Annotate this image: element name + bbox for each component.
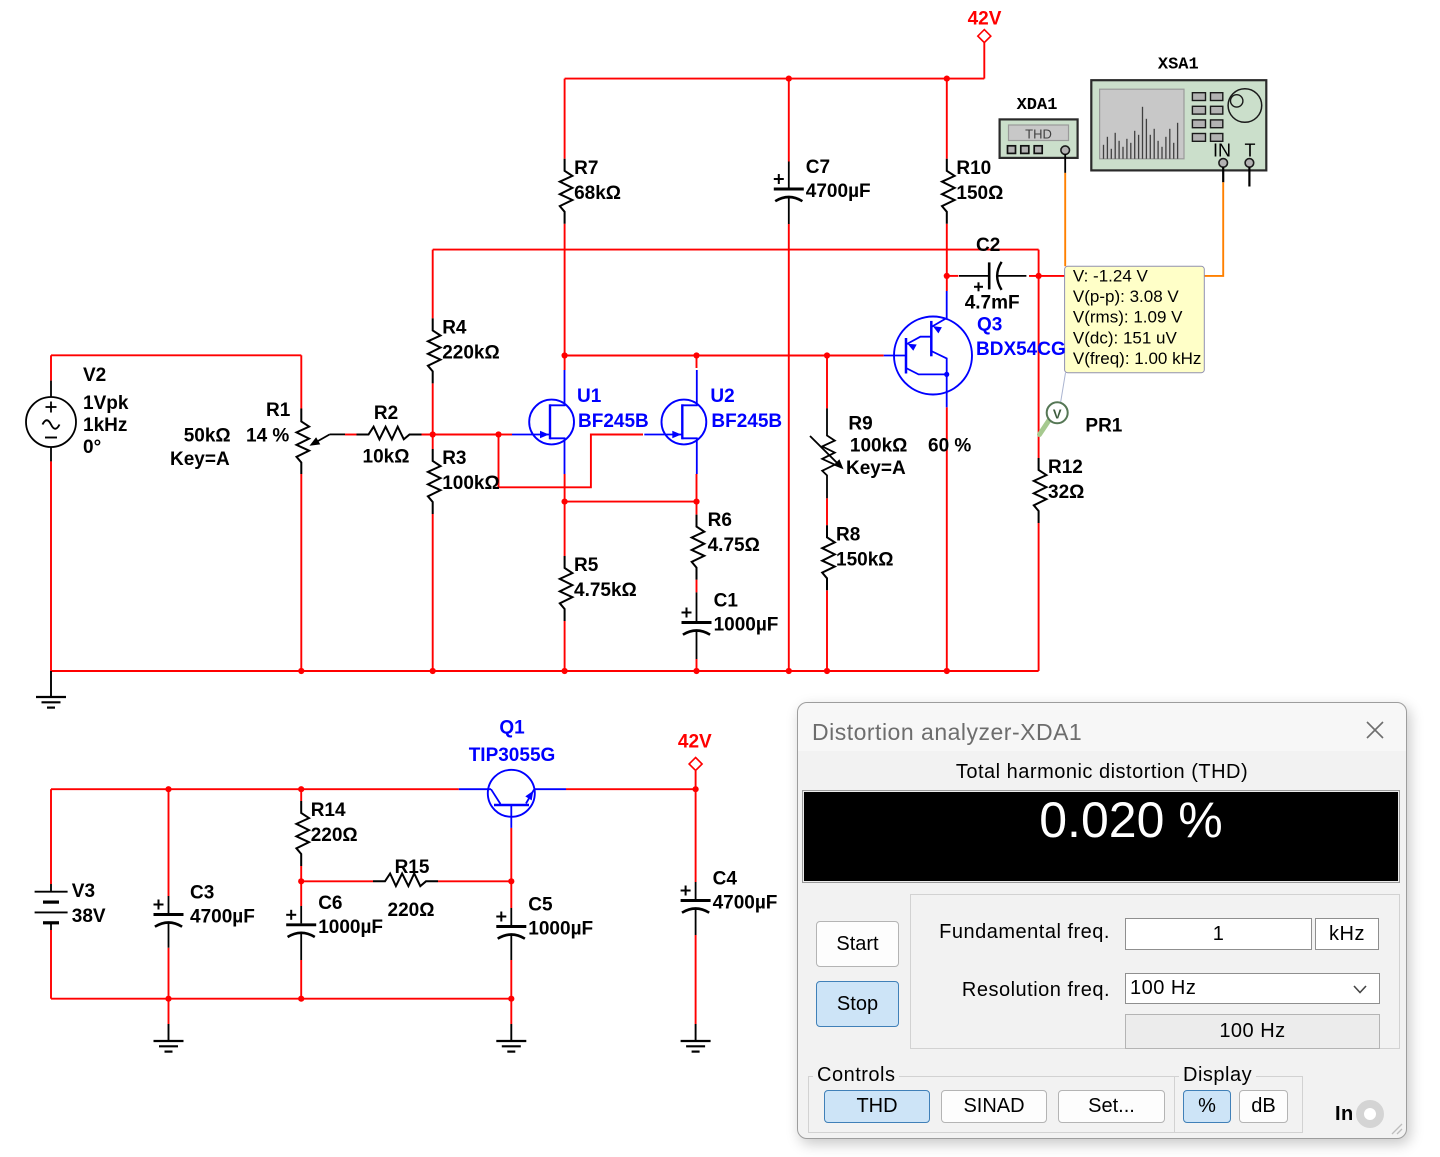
svg-text:10kΩ: 10kΩ	[363, 447, 410, 468]
svg-text:V3: V3	[72, 881, 95, 902]
svg-text:C5: C5	[528, 895, 553, 916]
svg-text:1000µF: 1000µF	[528, 919, 593, 940]
svg-text:XSA1: XSA1	[1158, 56, 1199, 75]
svg-text:R5: R5	[574, 555, 599, 576]
svg-text:R2: R2	[374, 403, 398, 424]
svg-text:1000µF: 1000µF	[318, 917, 383, 938]
svg-text:R12: R12	[1048, 457, 1083, 478]
svg-text:R4: R4	[442, 317, 467, 338]
svg-text:1kHz: 1kHz	[83, 415, 127, 436]
svg-text:C4: C4	[713, 869, 738, 890]
svg-text:32Ω: 32Ω	[1048, 482, 1084, 503]
svg-text:60 %: 60 %	[928, 436, 971, 457]
svg-text:BF245B: BF245B	[578, 411, 649, 432]
svg-text:V(dc): 151 uV: V(dc): 151 uV	[1073, 328, 1178, 347]
svg-text:42V: 42V	[678, 732, 712, 753]
svg-text:R15: R15	[395, 857, 430, 878]
svg-text:PR1: PR1	[1085, 416, 1122, 437]
svg-text:U2: U2	[710, 386, 734, 407]
svg-text:100kΩ: 100kΩ	[442, 473, 500, 494]
svg-text:R1: R1	[266, 400, 291, 421]
svg-text:4700µF: 4700µF	[806, 181, 871, 202]
svg-text:150Ω: 150Ω	[956, 183, 1003, 204]
svg-text:220kΩ: 220kΩ	[442, 342, 500, 363]
svg-text:R8: R8	[836, 524, 860, 545]
svg-text:U1: U1	[577, 386, 602, 407]
svg-text:V(p-p): 3.08 V: V(p-p): 3.08 V	[1073, 287, 1179, 306]
svg-text:T: T	[1245, 141, 1256, 161]
svg-text:BF245B: BF245B	[711, 411, 782, 432]
svg-text:C6: C6	[318, 893, 342, 914]
svg-text:THD: THD	[1025, 127, 1052, 142]
svg-text:4.75Ω: 4.75Ω	[708, 535, 760, 556]
svg-text:4.75kΩ: 4.75kΩ	[574, 580, 637, 601]
svg-text:V(rms): 1.09 V: V(rms): 1.09 V	[1073, 308, 1183, 327]
svg-text:C3: C3	[190, 883, 214, 904]
svg-text:42V: 42V	[968, 9, 1002, 30]
svg-text:50kΩ: 50kΩ	[184, 426, 231, 447]
svg-text:R9: R9	[848, 414, 872, 435]
svg-text:4700µF: 4700µF	[190, 907, 255, 928]
svg-text:BDX54CG: BDX54CG	[976, 339, 1066, 360]
svg-text:Key=A: Key=A	[846, 458, 906, 479]
svg-text:Q1: Q1	[499, 718, 525, 739]
svg-text:IN: IN	[1213, 141, 1231, 161]
svg-text:XDA1: XDA1	[1017, 96, 1058, 115]
svg-text:1000µF: 1000µF	[714, 615, 779, 636]
svg-text:C1: C1	[714, 591, 739, 612]
svg-text:4700µF: 4700µF	[713, 893, 778, 914]
svg-text:68kΩ: 68kΩ	[574, 183, 621, 204]
svg-text:V2: V2	[83, 365, 106, 386]
svg-text:38V: 38V	[72, 906, 106, 927]
svg-text:C7: C7	[806, 157, 830, 178]
svg-text:100kΩ: 100kΩ	[850, 436, 908, 457]
svg-text:R6: R6	[708, 510, 732, 531]
svg-text:R3: R3	[442, 448, 466, 469]
svg-text:150kΩ: 150kΩ	[836, 549, 894, 570]
svg-text:220Ω: 220Ω	[311, 825, 358, 846]
svg-text:R14: R14	[311, 800, 346, 821]
svg-text:R7: R7	[574, 158, 598, 179]
svg-text:V: -1.24 V: V: -1.24 V	[1073, 267, 1149, 286]
svg-text:0°: 0°	[83, 437, 101, 458]
svg-text:V(freq): 1.00 kHz: V(freq): 1.00 kHz	[1073, 349, 1202, 368]
svg-text:V: V	[1053, 406, 1062, 421]
svg-text:Q3: Q3	[977, 315, 1002, 336]
svg-text:R10: R10	[956, 158, 991, 179]
svg-text:Key=A: Key=A	[170, 449, 230, 470]
svg-text:14 %: 14 %	[246, 426, 289, 447]
svg-text:1Vpk: 1Vpk	[83, 393, 129, 414]
svg-text:220Ω: 220Ω	[388, 900, 435, 921]
svg-text:4.7mF: 4.7mF	[965, 293, 1020, 314]
svg-text:TIP3055G: TIP3055G	[469, 745, 556, 766]
svg-text:C2: C2	[976, 235, 1000, 256]
